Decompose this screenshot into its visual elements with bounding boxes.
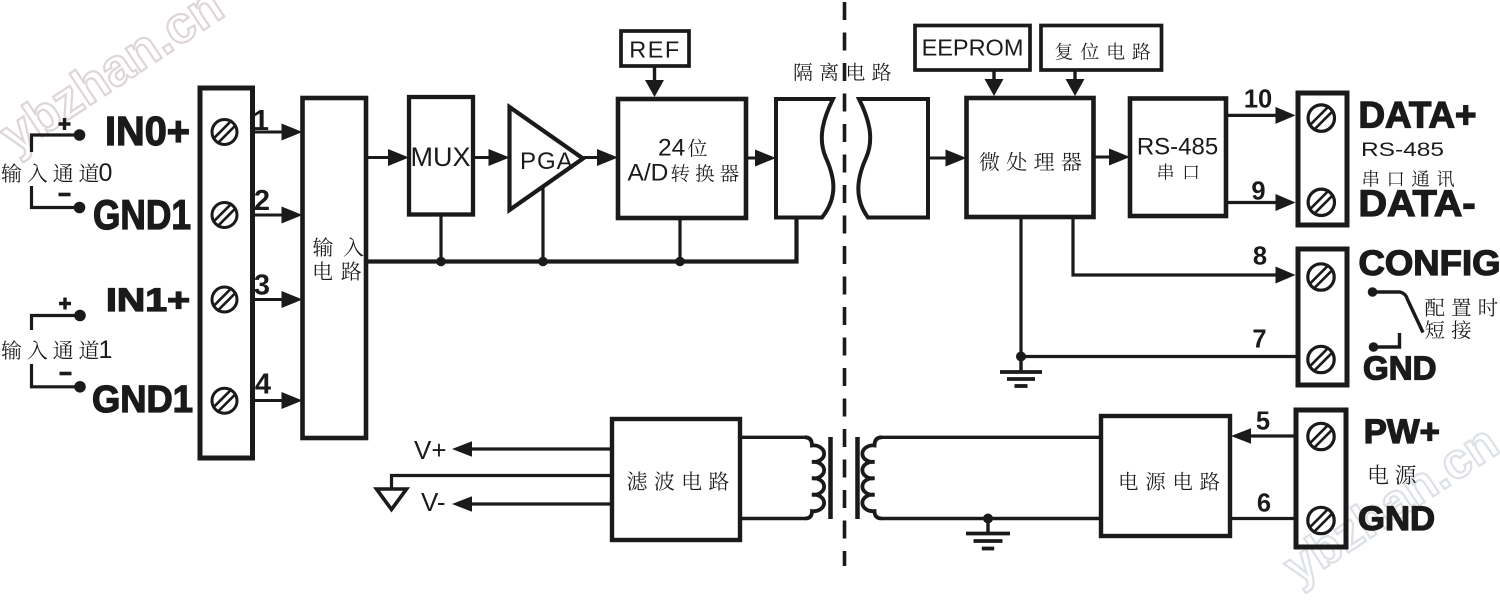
isolation circuit right torn shape	[858, 99, 928, 218]
svg-text:RS-485: RS-485	[1361, 140, 1444, 161]
junction dot GND1 channel 1	[74, 381, 86, 393]
wire pin 2 to input circuit	[250, 214, 283, 217]
wire pin 6 to power circuit	[1230, 517, 1296, 520]
minus sign channel 0	[59, 193, 71, 197]
terminal block J4 (pins 5,6 power)	[1296, 410, 1346, 547]
wire MUX to PGA	[473, 156, 491, 159]
svg-text:5: 5	[1256, 408, 1270, 436]
wire pin 4 to input circuit	[250, 399, 283, 402]
ground symbol power	[986, 519, 989, 533]
screw terminal pin 8	[1308, 264, 1334, 290]
wire transformer to power circuit bottom	[882, 517, 1101, 520]
label short when configuring line1	[1425, 298, 1497, 316]
power circuit block	[1101, 416, 1230, 536]
junction dot ground node	[1016, 352, 1026, 362]
transformer primary winding	[805, 437, 824, 518]
svg-text:1: 1	[253, 105, 269, 137]
label input circuit line1	[313, 237, 363, 256]
label input circuit line2	[315, 261, 361, 280]
svg-text:A/D: A/D	[628, 160, 669, 187]
minus sign channel 1	[60, 372, 72, 376]
screw terminal pin 7	[1308, 346, 1334, 372]
RS-485 serial block	[1130, 99, 1226, 217]
svg-text:GND1: GND1	[93, 191, 191, 238]
screw terminal pin 1	[212, 120, 237, 145]
microprocessor block	[967, 98, 1094, 217]
wire REF to A/D	[653, 66, 656, 82]
wire reset to microprocessor	[1073, 70, 1076, 81]
terminal block J1 (pins 1-4)	[200, 88, 253, 458]
EEPROM block	[915, 26, 1030, 71]
label filter circuit	[627, 471, 728, 490]
input circuit block	[303, 98, 367, 438]
svg-text:10: 10	[1244, 86, 1272, 114]
wire isolation to microprocessor	[928, 157, 947, 160]
screw terminal pin 4	[212, 388, 237, 413]
svg-text:V+: V+	[414, 435, 447, 465]
label wei (bit)	[688, 139, 707, 157]
wire RS-485 to pin 9	[1226, 201, 1277, 204]
svg-text:PW+: PW+	[1364, 413, 1440, 451]
ground symbol digital	[1019, 357, 1022, 372]
filter circuit block	[612, 419, 740, 540]
svg-text:RS-485: RS-485	[1137, 134, 1218, 161]
wire pin 3 to input circuit	[250, 298, 283, 301]
PGA amplifier	[510, 107, 584, 210]
stub A/D to bus	[678, 218, 681, 262]
label power circuit	[1121, 472, 1220, 491]
wire filter to transformer bottom	[740, 517, 805, 520]
svg-text:24: 24	[658, 135, 685, 162]
wire PGA to A/D	[583, 156, 599, 159]
svg-text:GND: GND	[1363, 350, 1437, 387]
wire pin 5 to power circuit	[1249, 434, 1296, 437]
svg-text:PGA: PGA	[520, 148, 574, 175]
wire microprocessor to pin 8	[1073, 217, 1277, 275]
wire RS-485 to pin 10	[1226, 114, 1277, 117]
node GND1 wire (-) channel 1	[32, 364, 81, 387]
node IN1+ wire (+)	[32, 316, 81, 331]
wire analog ground from filter	[392, 476, 613, 490]
wire A/D to isolation	[746, 157, 757, 160]
svg-text:2: 2	[254, 185, 270, 217]
svg-text:DATA-: DATA-	[1359, 183, 1476, 224]
screw terminal pin 5	[1308, 423, 1334, 449]
svg-text:6: 6	[1257, 490, 1271, 518]
analog bus wire	[366, 218, 797, 262]
terminal block J3 (pins 8,7 CONFIG/GND)	[1298, 249, 1347, 385]
switch bottom contact wire	[1374, 333, 1400, 347]
wire input circuit to MUX	[366, 156, 390, 159]
svg-text:8: 8	[1253, 243, 1267, 271]
transformer core bars	[828, 437, 833, 519]
svg-text:MUX: MUX	[411, 142, 471, 172]
wire V+ output	[470, 447, 612, 450]
label isolation circuit	[795, 63, 891, 81]
label microprocessor	[980, 152, 1082, 171]
transformer secondary winding	[862, 437, 882, 518]
junction dot power ground	[983, 514, 993, 524]
stub MUX to bus	[439, 215, 442, 262]
wire filter to transformer top	[740, 436, 805, 439]
label serial communication	[1364, 170, 1454, 187]
REF block	[621, 31, 689, 66]
screw terminal pin 9	[1308, 189, 1334, 215]
wire microprocessor ground to pin 7	[1021, 217, 1298, 357]
svg-text:3: 3	[254, 270, 270, 302]
junction dot bus below A/D	[675, 257, 685, 267]
switch contact dot bottom	[1369, 342, 1379, 352]
label power supply	[1370, 465, 1416, 485]
screw terminal pin 3	[212, 287, 237, 312]
svg-text:EEPROM: EEPROM	[922, 35, 1024, 61]
stub PGA to bus	[541, 187, 544, 262]
terminal block J2 (pins 10,9 DATA)	[1298, 93, 1347, 225]
wire transformer to power circuit top	[882, 436, 1101, 439]
svg-text:GND: GND	[1358, 500, 1435, 538]
svg-text:REF: REF	[629, 37, 681, 63]
label serial port	[1159, 163, 1199, 179]
label reset circuit	[1056, 43, 1151, 60]
svg-text:CONFIG: CONFIG	[1359, 243, 1500, 283]
A/D converter block	[618, 99, 746, 218]
label input channel 1	[2, 340, 99, 359]
wire EEPROM to microprocessor	[992, 70, 995, 81]
svg-text:IN0+: IN0+	[105, 108, 190, 154]
screw terminal pin 6	[1308, 507, 1334, 533]
junction dot IN0+	[74, 129, 86, 141]
plus sign channel 1	[59, 298, 71, 310]
wire microprocessor to RS-485	[1094, 156, 1112, 159]
svg-text:0: 0	[99, 159, 113, 187]
wire V- output	[470, 502, 612, 505]
isolation circuit left torn shape	[776, 99, 833, 218]
svg-text:7: 7	[1252, 326, 1266, 354]
svg-text:4: 4	[255, 369, 271, 401]
wire pin 1 to input circuit	[250, 131, 283, 134]
node IN0+ wire (+)	[32, 135, 80, 152]
svg-text:GND1: GND1	[92, 379, 193, 421]
reset circuit block	[1041, 26, 1162, 71]
junction dot bus below PGA	[538, 257, 548, 267]
node GND1 wire (-) channel 0	[32, 186, 80, 208]
svg-text:9: 9	[1251, 178, 1265, 206]
junction dot GND1 channel 0	[74, 202, 86, 214]
analog ground triangle	[377, 489, 407, 510]
label converter	[671, 164, 738, 182]
svg-text:V-: V-	[421, 487, 446, 517]
switch lever wire	[1373, 292, 1424, 333]
svg-text:IN1+: IN1+	[106, 282, 190, 318]
junction dot IN1+	[74, 310, 86, 322]
isolation barrier dashed line	[843, 2, 847, 566]
MUX block	[409, 97, 473, 215]
svg-text:1: 1	[99, 336, 113, 364]
label short when configuring line2	[1425, 320, 1470, 339]
svg-text:DATA+: DATA+	[1359, 95, 1477, 136]
switch contact dot top	[1368, 287, 1378, 297]
plus sign channel 0	[59, 118, 71, 130]
junction dot bus below MUX	[436, 257, 446, 267]
screw terminal pin 2	[212, 203, 237, 228]
label input channel 0	[2, 163, 99, 182]
screw terminal pin 10	[1308, 105, 1334, 131]
